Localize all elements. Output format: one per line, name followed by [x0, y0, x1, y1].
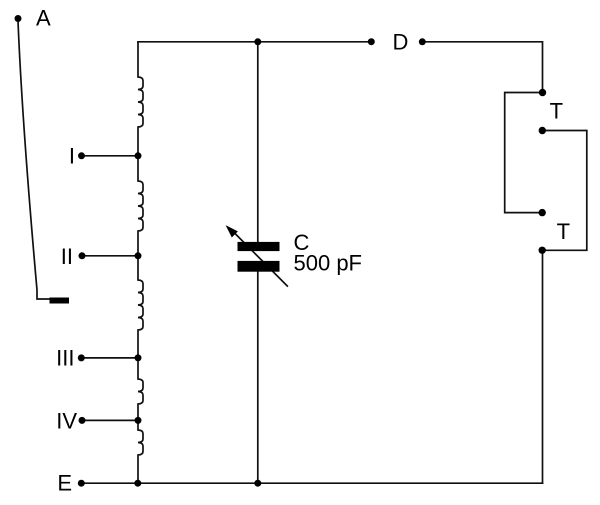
node T upper pair, top dot — [539, 89, 546, 96]
wire: tap III lead — [81, 357, 138, 359]
svg-text:III: III — [56, 345, 74, 370]
node D left terminal dot — [368, 38, 375, 45]
node T upper pair, bottom dot — [539, 127, 546, 134]
capacitor C bottom plate — [238, 261, 280, 272]
capacitor C top plate — [238, 242, 280, 251]
wire: capacitor branch lower — [257, 272, 259, 484]
node: bottom bus / capacitor junction — [254, 480, 261, 487]
wire: tap IV lead — [82, 419, 138, 421]
wire: top bus from coil top to D left terminal — [138, 41, 371, 43]
wire: bottom bus — [81, 482, 542, 484]
capacitor C arrow (variable) — [233, 231, 288, 286]
svg-text:500 pF: 500 pF — [294, 251, 363, 276]
terminal E dot — [78, 480, 85, 487]
svg-text:T: T — [550, 98, 563, 123]
node: coil tap I junction — [135, 152, 142, 159]
wire: right jumper between T terminals — [542, 131, 587, 251]
node: coil tap II junction — [135, 252, 142, 259]
svg-text:D: D — [393, 29, 409, 54]
svg-text:I: I — [69, 143, 75, 168]
wire: tap II lead — [82, 255, 138, 257]
svg-text:E: E — [57, 471, 72, 496]
svg-text:T: T — [557, 219, 570, 244]
wire: top bus from D right terminal to right corner, down to T — [423, 42, 543, 93]
node D right terminal dot — [419, 38, 426, 45]
selector contact bar — [50, 298, 70, 304]
node T lower pair, top dot — [539, 209, 546, 216]
svg-text:II: II — [61, 244, 73, 269]
terminal III dot — [78, 354, 85, 361]
svg-text:A: A — [36, 5, 51, 30]
wire: aerial selector arm from A — [18, 21, 50, 299]
node A terminal dot — [15, 15, 22, 22]
wire: tap I lead — [82, 155, 139, 157]
terminal II dot — [79, 252, 86, 259]
node: coil tap III junction — [135, 354, 142, 361]
wire: left vertical arm of T bracket — [505, 93, 543, 213]
wire: capacitor branch upper — [257, 42, 259, 242]
node: coil tap IV junction — [135, 417, 142, 424]
node T lower pair, bottom dot — [539, 247, 546, 254]
node: top bus / capacitor junction — [254, 38, 261, 45]
terminal IV dot — [79, 417, 86, 424]
svg-text:IV: IV — [56, 408, 77, 433]
terminal I dot — [78, 152, 85, 159]
capacitor C arrow head — [227, 227, 237, 237]
node: coil bottom / bottom bus junction — [134, 480, 141, 487]
inductor L (tapped coil) spine and windings — [138, 42, 143, 483]
wire: right side down from lower T to bottom bus — [542, 250, 544, 483]
